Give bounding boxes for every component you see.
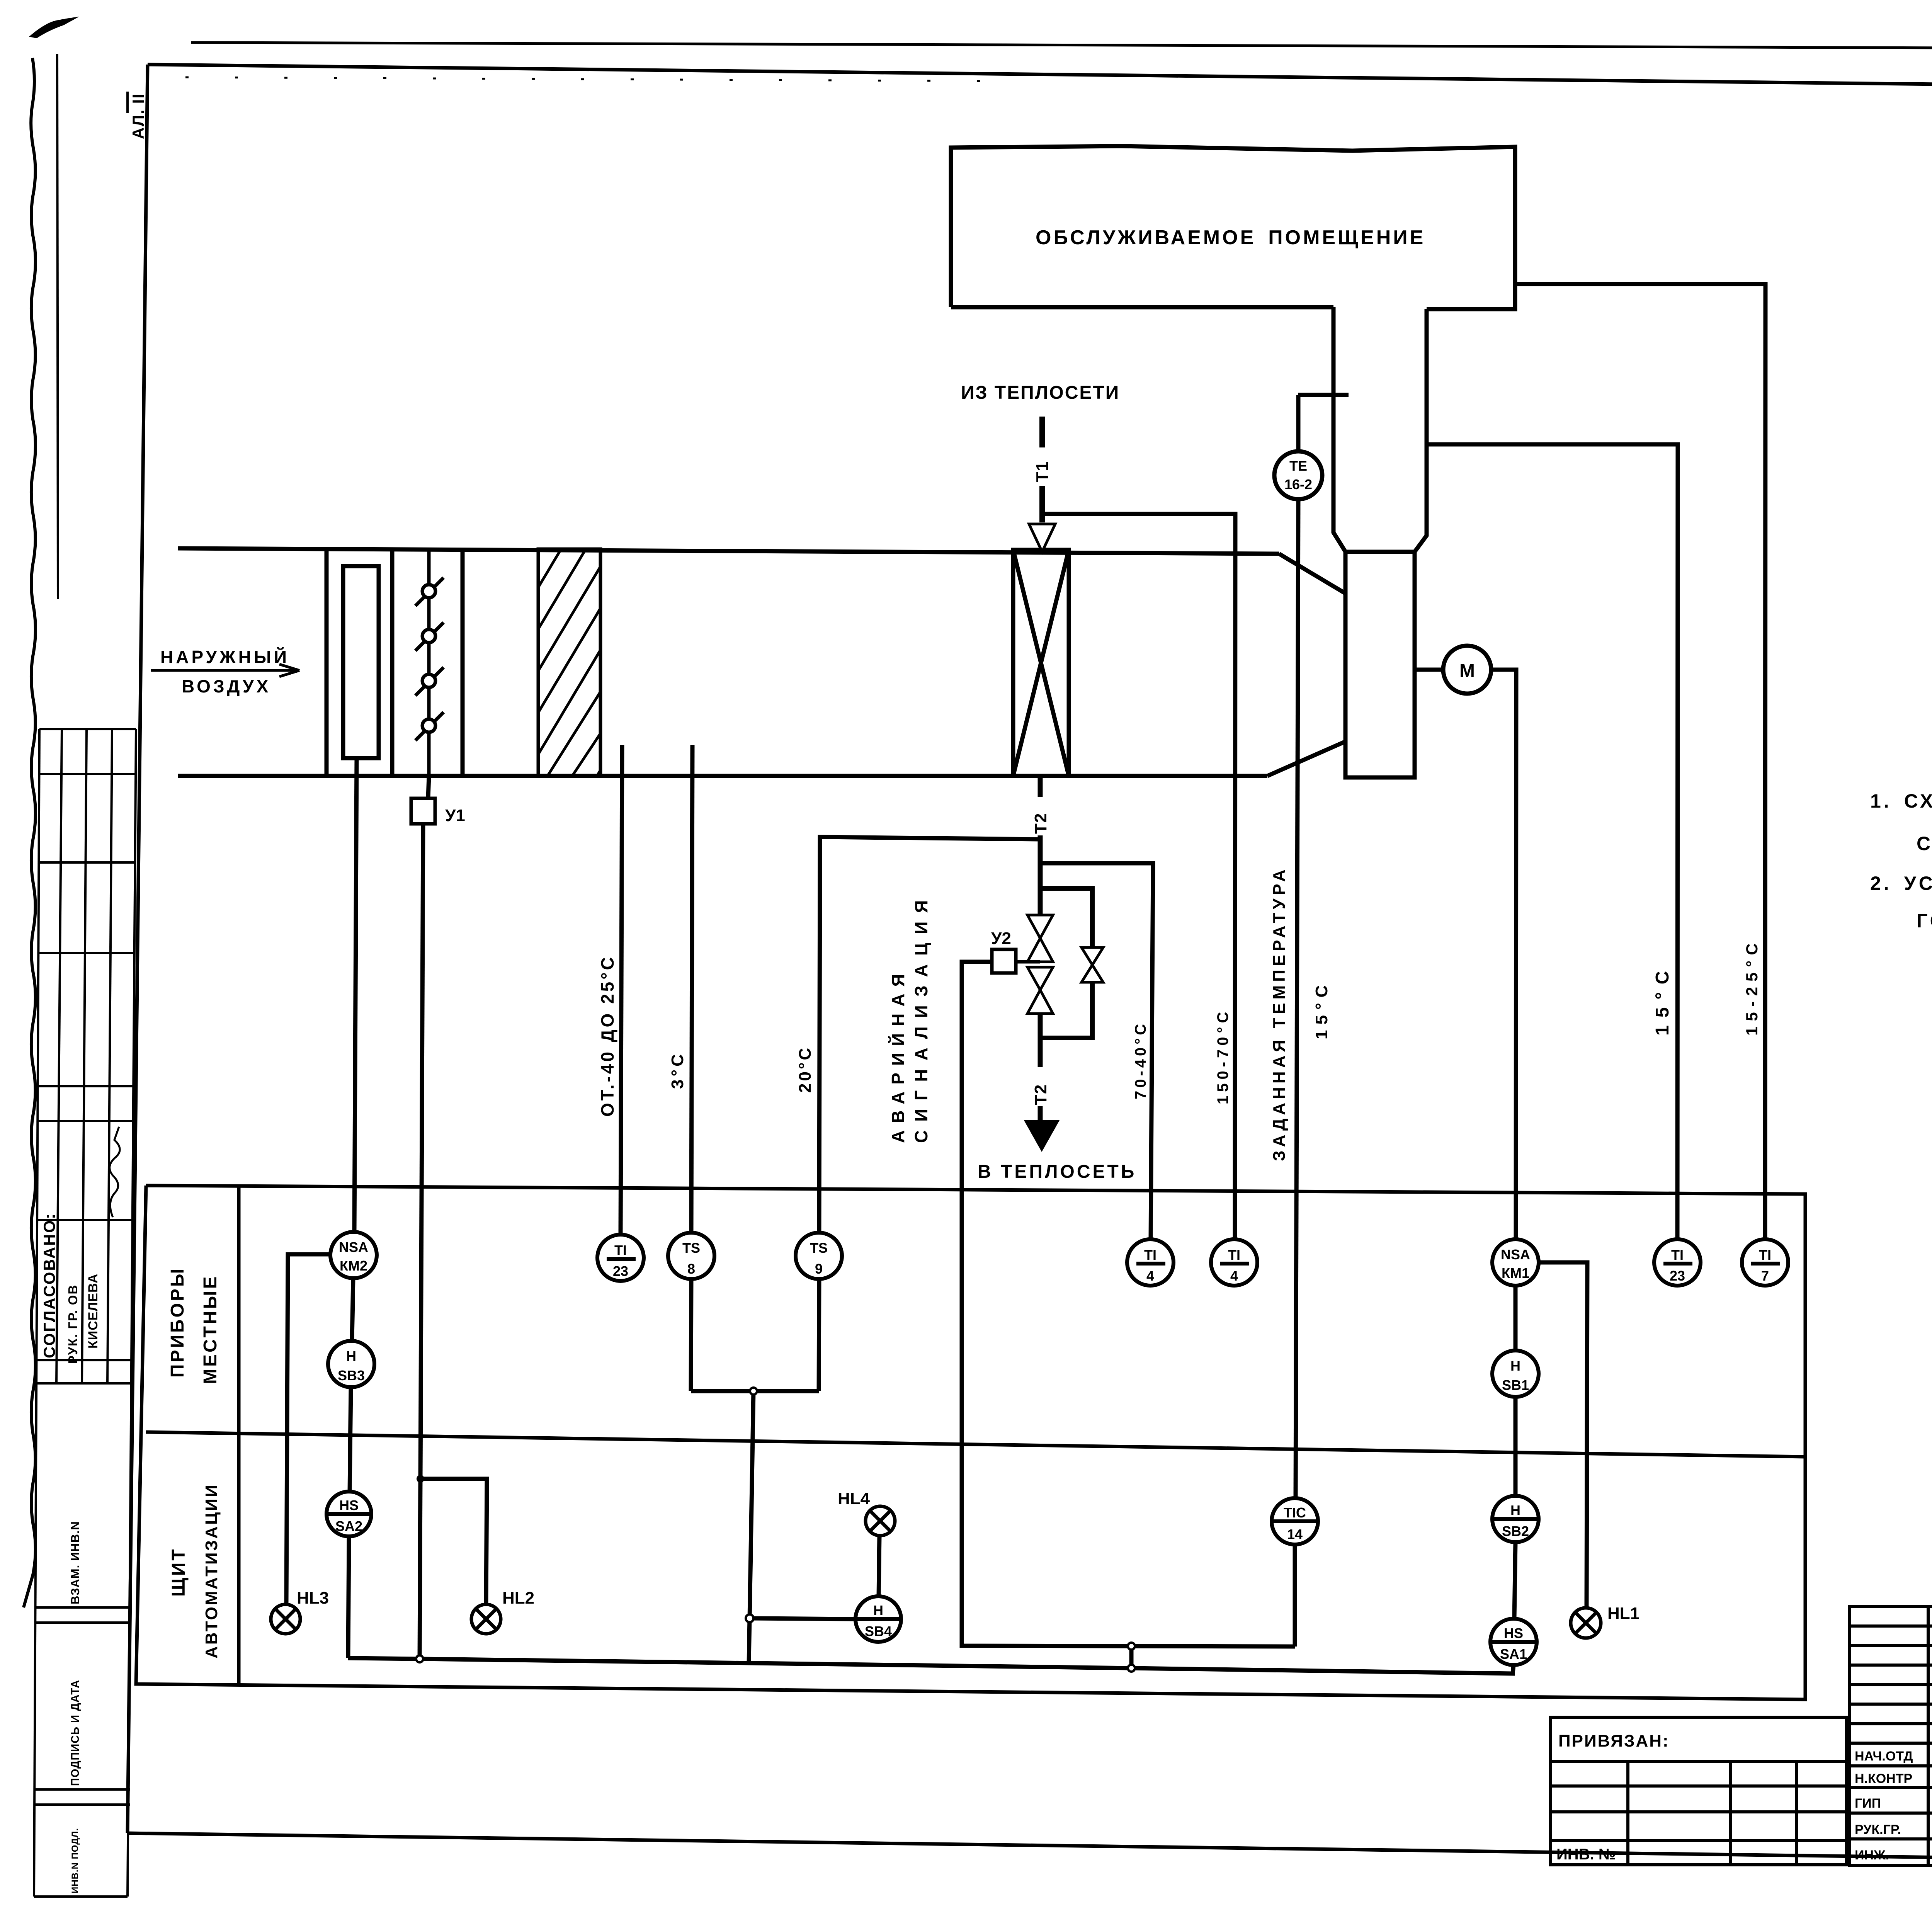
button H SB1 — [1492, 1351, 1539, 1397]
thermometer TI-23 left — [597, 1235, 644, 1281]
svg-text:У1: У1 — [445, 806, 465, 825]
svg-text:14: 14 — [1287, 1526, 1303, 1542]
box: label column divider — [237, 1186, 241, 1685]
frame bottom border — [128, 1833, 1932, 1867]
wire: supply outlet duct right wall — [1415, 309, 1427, 552]
svg-text:ЗАДАННАЯ ТЕМПЕРАТУРА: ЗАДАННАЯ ТЕМПЕРАТУРА — [1270, 866, 1289, 1161]
svg-text:Т2: Т2 — [1031, 1084, 1050, 1105]
wire: motor to NSA KM1 — [1491, 670, 1516, 1239]
wire: damper rod to NSA KM2 — [354, 758, 357, 1232]
wire: capillary to TI-23 left (outdoor temp) — [621, 745, 622, 1235]
wire: emergency alarm line from У2 — [962, 962, 1295, 1647]
svg-text:МЕСТНЫЕ: МЕСТНЫЕ — [200, 1275, 221, 1384]
svg-text:4: 4 — [1146, 1268, 1154, 1284]
thermometer TI-4 second — [1211, 1239, 1257, 1286]
svg-text:ЩИТ: ЩИТ — [168, 1547, 189, 1597]
svg-text:ПОДПИСЬ И ДАТА: ПОДПИСЬ И ДАТА — [69, 1680, 82, 1786]
svg-text:23: 23 — [1670, 1268, 1685, 1284]
svg-text:ИНВ. №: ИНВ. № — [1556, 1846, 1616, 1863]
svg-text:15°С: 15°С — [1312, 980, 1331, 1039]
switch NSA KM1 — [1492, 1239, 1539, 1286]
left margin stamp strip — [34, 729, 136, 1897]
pipe: bypass loop right — [1040, 888, 1092, 1038]
svg-text:СОГЛАСОВАНО:: СОГЛАСОВАНО: — [40, 1213, 58, 1358]
svg-text:3°С: 3°С — [668, 1051, 687, 1089]
lamp HL1 — [1571, 1608, 1601, 1638]
sensor TE 16-2 — [1274, 395, 1349, 1498]
box: local instruments / automation panel — [136, 1186, 1805, 1699]
svg-text:23: 23 — [613, 1263, 628, 1279]
louver rod with blades — [415, 551, 444, 776]
svg-text:КМ2: КМ2 — [340, 1258, 367, 1274]
frame top border — [148, 65, 1932, 92]
wire: NSA KM2 to HL3 — [286, 1254, 331, 1604]
svg-text:ТI: ТI — [1671, 1247, 1684, 1263]
svg-text:ВЗАМ. ИНВ.N: ВЗАМ. ИНВ.N — [68, 1521, 82, 1604]
svg-text:ПРИВЯЗАН:: ПРИВЯЗАН: — [1558, 1732, 1670, 1750]
svg-text:8: 8 — [687, 1261, 695, 1277]
arrow T1 into duct (hollow) — [1029, 524, 1055, 552]
svg-text:70-40°С: 70-40°С — [1132, 1021, 1149, 1099]
lamp HL4 — [866, 1506, 895, 1536]
sheet top scan edge — [191, 43, 1932, 50]
valve V1 on main line (upper bowtie) — [1027, 915, 1053, 962]
svg-text:СИГНАЛИЗАЦИЯ: СИГНАЛИЗАЦИЯ — [911, 892, 931, 1143]
filter hatched block — [538, 549, 600, 776]
valve V2 on main line (lower bowtie) — [1027, 967, 1053, 1014]
junction dot SB4 — [746, 1614, 753, 1622]
switch HS SA2 — [327, 1492, 371, 1536]
svg-text:9: 9 — [815, 1261, 823, 1277]
svg-text:ГОСТ 21.106-78.: ГОСТ 21.106-78. — [1917, 910, 1932, 932]
svg-text:НАЧ.ОТД: НАЧ.ОТД — [1855, 1749, 1913, 1764]
svg-text:ТI: ТI — [1759, 1247, 1771, 1263]
actuator У1 box — [411, 798, 435, 824]
svg-text:1. СХЕМА АВТОМАТИЗАЦИИ СОСТАВ: 1. СХЕМА АВТОМАТИЗАЦИИ СОСТАВЛЕНА ДЛЯ ОД… — [1870, 790, 1932, 812]
svg-text:Н: Н — [873, 1602, 883, 1618]
personnel rows — [1855, 1749, 1932, 1863]
svg-text:АВАРИЙНАЯ: АВАРИЙНАЯ — [888, 967, 908, 1143]
svg-text:ТI: ТI — [1144, 1247, 1156, 1263]
label T2 (upper) — [1029, 797, 1050, 835]
svg-text:ВОЗДУХ: ВОЗДУХ — [182, 676, 271, 696]
junction dot — [417, 1475, 424, 1483]
damper blade rectangle — [343, 566, 379, 758]
svg-text:Н: Н — [1510, 1358, 1520, 1374]
svg-text:НАРУЖНЫЙ: НАРУЖНЫЙ — [160, 647, 289, 667]
pipe T1 (from heat network) — [1039, 417, 1045, 522]
duct top line — [178, 548, 1279, 554]
fan inlet cone bottom — [1267, 741, 1346, 776]
pipe T2 below valves to network — [1038, 1014, 1043, 1121]
svg-text:КИСЕЛЕВА: КИСЕЛЕВА — [86, 1274, 100, 1349]
frame left border — [128, 65, 148, 1833]
svg-text:НL1: НL1 — [1607, 1604, 1639, 1623]
wire: fan to motor stub — [1415, 668, 1443, 672]
wire: HS SA2 to bottom bus — [348, 1536, 349, 1658]
svg-text:У2: У2 — [991, 929, 1011, 948]
damper section walls — [325, 548, 329, 776]
svg-text:М: М — [1459, 661, 1475, 681]
wire: HL4 to H SB4 — [879, 1536, 879, 1596]
svg-text:ОТ.-40 ДО 25°С: ОТ.-40 ДО 25°С — [597, 955, 617, 1117]
wire: room to TI-7 (15-25 C) — [1515, 284, 1765, 1239]
svg-text:ОБСЛУЖИВАЕМОЕ ПОМЕЩЕНИЕ: ОБСЛУЖИВАЕМОЕ ПОМЕЩЕНИЕ — [1036, 226, 1425, 249]
svg-text:АВТОМАТИЗАЦИИ: АВТОМАТИЗАЦИИ — [202, 1483, 221, 1658]
svg-text:РУК.ГР.: РУК.ГР. — [1855, 1822, 1901, 1837]
svg-text:150-70°С: 150-70°С — [1214, 1008, 1231, 1104]
wire: У1 down to panel — [420, 824, 423, 1479]
junction ring TS — [750, 1388, 757, 1395]
svg-text:НS: НS — [1504, 1625, 1523, 1641]
svg-text:4: 4 — [1230, 1268, 1238, 1284]
wire: louver rod to У1 — [428, 776, 429, 798]
wire: capillary to TS-8 — [691, 745, 692, 1233]
svg-text:Т1: Т1 — [1033, 461, 1052, 482]
svg-text:РУК. ГР. ОВ: РУК. ГР. ОВ — [66, 1284, 80, 1364]
thermostat TS-8 — [668, 1233, 714, 1279]
button H SB3 — [328, 1341, 374, 1387]
svg-text:20°С: 20°С — [796, 1046, 815, 1093]
label НАРУЖНЫЙ ВОЗДУХ with arrow — [160, 647, 289, 696]
svg-text:НL2: НL2 — [502, 1589, 534, 1607]
thermometer TI-7 — [1742, 1239, 1788, 1286]
arrow under НАРУЖНЫЙ — [151, 664, 299, 677]
arrow T2 to network (solid) — [1026, 1121, 1058, 1150]
svg-text:КМ1: КМ1 — [1502, 1265, 1529, 1281]
svg-text:15-25°С: 15-25°С — [1743, 938, 1761, 1036]
svg-text:Н: Н — [1510, 1502, 1520, 1518]
svg-text:7: 7 — [1761, 1268, 1769, 1284]
svg-text:АЛ. II: АЛ. II — [129, 93, 147, 139]
svg-text:SВ2: SВ2 — [1502, 1523, 1529, 1539]
svg-text:Т2: Т2 — [1031, 813, 1050, 834]
svg-text:ПРИБОРЫ: ПРИБОРЫ — [167, 1267, 188, 1378]
lamp HL3 — [271, 1506, 1601, 1638]
svg-text:ИНЖ.: ИНЖ. — [1855, 1848, 1889, 1863]
switch HS SA1 — [1490, 1619, 1537, 1665]
wire: supply outlet duct left wall — [1333, 307, 1345, 552]
wire: T1 branch to TI-4 (150-70) — [1042, 514, 1235, 1239]
svg-text:SА2: SА2 — [335, 1518, 362, 1534]
svg-text:ТI: ТI — [614, 1242, 627, 1258]
node: served room box (ОБСЛУЖИВАЕМОЕ ПОМЕЩЕНИЕ) — [951, 146, 1515, 309]
svg-text:ИНВ.N ПОДЛ.: ИНВ.N ПОДЛ. — [70, 1828, 80, 1893]
svg-text:ИЗ ТЕПЛОСЕТИ: ИЗ ТЕПЛОСЕТИ — [961, 383, 1120, 403]
svg-text:15°С: 15°С — [1652, 963, 1673, 1036]
svg-text:SВ1: SВ1 — [1502, 1377, 1529, 1393]
fan housing — [1345, 552, 1415, 777]
svg-text:В ТЕПЛОСЕТЬ: В ТЕПЛОСЕТЬ — [978, 1162, 1136, 1182]
junction ring on bus — [416, 1655, 423, 1662]
wire: TS-8 TS-9 common — [691, 1279, 855, 1663]
wire: branch to HL2 — [420, 1479, 487, 1604]
box: row divider — [146, 1432, 1805, 1457]
wire: H SB3 to HS SA2 — [350, 1387, 351, 1492]
button H SB2 — [1492, 1496, 1539, 1542]
thermometer TI-4 first — [1127, 1239, 1173, 1286]
svg-text:НS: НS — [339, 1497, 359, 1513]
svg-text:2. УСЛОВНЫЕ ОБОЗНАЧЕНИЯ ТРУБОП: 2. УСЛОВНЫЕ ОБОЗНАЧЕНИЯ ТРУБОПРОВОДОВ ПР… — [1870, 873, 1932, 894]
svg-text:ТS: ТS — [810, 1240, 828, 1256]
scan edge wavy line left — [24, 58, 36, 1607]
wire: link alarm line to bus — [1129, 1646, 1134, 1668]
junction rings link — [1128, 1643, 1135, 1650]
svg-text:Н: Н — [346, 1348, 356, 1364]
valve: bypass bowtie — [1082, 947, 1103, 982]
label T2 (lower) — [1029, 1067, 1050, 1106]
wire: branch to TI-4 (70-40) — [1040, 863, 1153, 1239]
svg-text:НL4: НL4 — [838, 1489, 870, 1508]
wire: TIC-14 stem down — [1293, 1544, 1297, 1647]
label T1 — [1031, 447, 1052, 486]
wire: continue to bus — [420, 1479, 420, 1659]
lamp HL2 — [471, 1604, 501, 1634]
signature in margin — [110, 1127, 120, 1217]
thermometer TI-23 right — [1654, 1239, 1788, 1286]
svg-text:ТS: ТS — [682, 1240, 700, 1256]
wire: tap to TS-9 (20 C) — [819, 837, 1040, 1233]
ПРИВЯЗАН table — [1551, 1717, 1847, 1865]
wire: NSA KM1 to HL1 — [1539, 1262, 1587, 1608]
svg-text:NSА: NSА — [1501, 1247, 1530, 1262]
section divider wall — [461, 549, 465, 776]
button H SB4 — [855, 1596, 901, 1642]
switch NSA KM2 — [330, 1232, 377, 1278]
wire: bottom bus — [348, 1658, 1514, 1674]
thermostat TS-9 — [796, 1233, 842, 1279]
svg-text:НL3: НL3 — [297, 1589, 329, 1607]
motor M — [1415, 646, 1516, 1239]
svg-text:16-2: 16-2 — [1284, 476, 1312, 492]
svg-text:ГИП: ГИП — [1855, 1796, 1881, 1811]
svg-text:ТI: ТI — [1228, 1247, 1240, 1263]
svg-text:ТЕ: ТЕ — [1289, 458, 1307, 474]
controller TIC-14 — [1272, 1498, 1318, 1544]
svg-text:Н.КОНТР: Н.КОНТР — [1855, 1771, 1912, 1786]
fan inlet cone top — [1279, 554, 1346, 594]
actuator У2 box — [992, 949, 1016, 973]
svg-text:NSA: NSA — [339, 1239, 368, 1255]
pipe T2 from heater down — [1038, 776, 1043, 915]
heater coil with X — [1013, 550, 1069, 776]
svg-text:ТIС: ТIС — [1284, 1505, 1306, 1521]
svg-text:SВ3: SВ3 — [338, 1368, 365, 1383]
svg-text:SА1: SА1 — [1500, 1646, 1527, 1662]
scan smudge top-left — [29, 17, 79, 38]
wire: У2 stub to valve — [1016, 960, 1040, 964]
wire: NSA KM1 chain down — [1514, 1286, 1515, 1619]
svg-text:СИСТЕМЫ И ПРИМЕНИМА ДЛЯ СИС: СИСТЕМЫ И ПРИМЕНИМА ДЛЯ СИСТЕМ П1-П3. — [1917, 833, 1932, 854]
duct bottom line — [178, 774, 1267, 778]
wire: NSA KM2 to H SB3 — [352, 1278, 353, 1341]
wire: duct outlet to TI-23 right (15 C) — [1427, 444, 1678, 1239]
svg-text:SВ4: SВ4 — [865, 1623, 892, 1639]
